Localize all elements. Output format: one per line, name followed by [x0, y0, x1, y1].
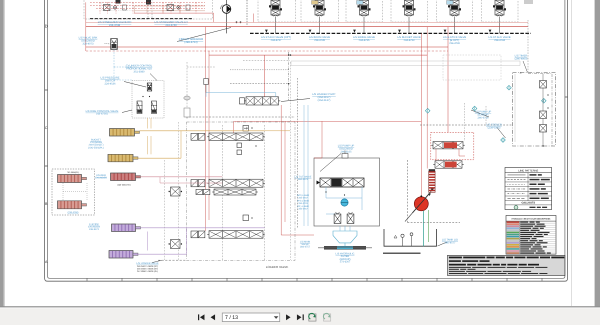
svg-text:284-4733: 284-4733: [298, 202, 308, 205]
svg-text:234-4737: 234-4737: [271, 39, 282, 42]
svg-text:351-3080: 351-3080: [134, 70, 146, 73]
svg-text:782-0884(PL): 782-0884(PL): [67, 171, 80, 174]
svg-text:246-9371: 246-9371: [89, 228, 100, 231]
svg-text:284-4747: 284-4747: [298, 208, 308, 211]
svg-text:(MT) L-4840: (MT) L-4840: [297, 194, 310, 197]
svg-text:246-3165: 246-3165: [341, 150, 353, 153]
svg-text:(246-5502(ST)): (246-5502(ST)): [117, 184, 131, 187]
svg-text:(298-4733): (298-4733): [184, 41, 197, 44]
svg-text:CALLOUTS: CALLOUTS: [521, 202, 535, 205]
svg-text:7 / 13: 7 / 13: [225, 315, 238, 321]
svg-text:(264-5127): (264-5127): [318, 99, 331, 102]
svg-text:234-4738: 234-4738: [314, 39, 325, 42]
svg-text:247-8996 1-06/06 (PL): 247-8996 1-06/06 (PL): [137, 270, 158, 273]
svg-text:234-4749: 234-4749: [165, 24, 177, 27]
svg-text:(XX)-5502(PL): (XX)-5502(PL): [88, 146, 104, 149]
svg-text:HYDRAULIC CIRCUIT COLOR DESCRI: HYDRAULIC CIRCUIT COLOR DESCRIPTIONS: [512, 217, 551, 220]
svg-text:D: D: [45, 24, 48, 29]
svg-text:234-4735: 234-4735: [359, 39, 370, 42]
svg-text:(PT) L-4840: (PT) L-4840: [297, 199, 309, 202]
svg-text:234-4736: 234-4736: [449, 42, 460, 45]
svg-text:284-4574: 284-4574: [298, 178, 309, 181]
svg-text:L/S LOADER VALVE: L/S LOADER VALVE: [136, 262, 159, 265]
svg-text:(234-0365): (234-0365): [488, 126, 501, 129]
svg-text:246-4577: 246-4577: [445, 241, 457, 244]
svg-text:284-4757: 284-4757: [300, 246, 311, 249]
svg-text:LOADER VALVE: LOADER VALVE: [266, 265, 288, 269]
svg-text:(234-4750): (234-4750): [68, 211, 79, 214]
svg-text:246-6714: 246-6714: [478, 116, 490, 119]
svg-text:(43-4750): (43-4750): [96, 113, 107, 116]
svg-text:C: C: [45, 126, 48, 130]
svg-text:×: ×: [519, 71, 521, 75]
svg-text:(246-4860): (246-4860): [515, 57, 528, 60]
svg-text:324-4073: 324-4073: [83, 42, 95, 45]
svg-text:(PL) L-4840: (PL) L-4840: [297, 205, 309, 208]
svg-text:224-4536: 224-4536: [105, 82, 117, 85]
svg-text:CYLINDER: CYLINDER: [95, 177, 107, 180]
svg-text:284-4737: 284-4737: [298, 197, 308, 200]
svg-text:234-4748: 234-4748: [109, 24, 121, 27]
svg-text:274-6207: 274-6207: [340, 261, 351, 264]
svg-text:234-4733: 234-4733: [404, 39, 415, 42]
svg-text:LINE PATTERNS: LINE PATTERNS: [518, 170, 538, 173]
svg-text:234-4734: 234-4734: [494, 39, 505, 42]
